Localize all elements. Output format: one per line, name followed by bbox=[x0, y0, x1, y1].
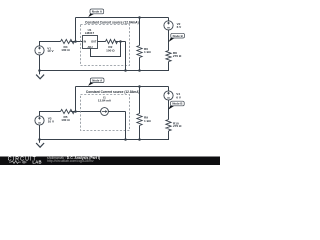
svg-text:1 kΩ: 1 kΩ bbox=[144, 119, 151, 123]
node dot R9 on rail bbox=[138, 138, 141, 141]
wire R6 to rail bbox=[139, 58, 141, 71]
voltage source V4 bbox=[164, 91, 173, 100]
constant current source dashed box (top) bbox=[81, 25, 130, 66]
svg-text:270 Ω: 270 Ω bbox=[173, 124, 182, 128]
wire node A corner to V2 bbox=[168, 18, 170, 21]
ground symbol (bottom circuit) bbox=[36, 143, 44, 147]
wire output drop to rail (bottom) bbox=[125, 112, 127, 140]
node dot R9 branch bbox=[138, 85, 141, 88]
wire node A top horizontal bbox=[76, 17, 169, 19]
wire node A riser (bottom) bbox=[75, 87, 77, 112]
op-amp U1 LM317 body bbox=[83, 36, 98, 49]
label I1 12.84 mA bbox=[98, 96, 112, 103]
label R2 100 ohm bbox=[106, 45, 115, 52]
resistor R6 bbox=[137, 46, 142, 58]
svg-text:OUT: OUT bbox=[91, 39, 97, 43]
wire R8 to rail bbox=[40, 62, 169, 71]
svg-text:LM317: LM317 bbox=[85, 31, 95, 35]
resistor R5 bbox=[61, 109, 75, 113]
node dot output on rail (bottom) bbox=[124, 138, 127, 141]
voltage source V3 bbox=[35, 116, 44, 125]
resistor R9 bbox=[137, 114, 142, 126]
wire R10 to rail bbox=[40, 131, 169, 140]
wire R6 branch vertical bbox=[139, 18, 141, 46]
wire V1 bottom to ground bbox=[39, 55, 41, 74]
svg-text:10 V: 10 V bbox=[48, 119, 55, 123]
label R8 270 ohm bbox=[173, 51, 182, 58]
node A callout (bottom) bbox=[88, 78, 104, 86]
node B callout (top) bbox=[169, 33, 185, 42]
svg-text:100 Ω: 100 Ω bbox=[61, 48, 70, 52]
node dot output on rail bbox=[124, 69, 127, 72]
wire V3 top to row bbox=[40, 112, 61, 116]
voltage source V2 bbox=[164, 21, 173, 30]
node dot ADJ feedback junction bbox=[119, 40, 122, 43]
node B callout (bottom) bbox=[168, 101, 184, 109]
wire R5 to I1 bbox=[71, 111, 101, 113]
svg-text:Constant Current source (12.84: Constant Current source (12.84mA) bbox=[86, 90, 140, 94]
label R5 100 ohm bbox=[61, 115, 70, 122]
node dot ground junction (bottom) bbox=[38, 138, 41, 141]
svg-text:270 Ω: 270 Ω bbox=[173, 54, 182, 58]
node A callout (top) bbox=[88, 9, 103, 17]
label R4 100 ohm bbox=[61, 45, 70, 52]
svg-text:ADJ: ADJ bbox=[87, 45, 93, 49]
wire output drop to rail bbox=[125, 42, 127, 71]
svg-text:Node A: Node A bbox=[92, 10, 103, 14]
label U1 LM317 bbox=[85, 28, 95, 35]
label V1 10 V bbox=[47, 46, 54, 53]
wire node A vertical riser bbox=[75, 18, 77, 42]
label R6 1 kohm bbox=[144, 47, 151, 54]
svg-text:LAB: LAB bbox=[32, 160, 41, 165]
node dot ground junction bbox=[38, 69, 41, 72]
svg-text:100 Ω: 100 Ω bbox=[106, 48, 115, 52]
label R9 1 kohm bbox=[144, 116, 151, 123]
wire R4 to LM317 IN bbox=[71, 41, 83, 43]
resistor R2 bbox=[106, 39, 118, 43]
ground symbol (top circuit) bbox=[36, 75, 44, 79]
node dot R6 branch on node A wire bbox=[138, 16, 141, 19]
wire I1 to output corner bbox=[108, 111, 125, 113]
wire R2 to output corner bbox=[116, 41, 126, 43]
svg-text:Constant Current source (12.84: Constant Current source (12.84mA) bbox=[85, 20, 139, 24]
label V3 10 V bbox=[48, 117, 55, 124]
svg-text:6 V: 6 V bbox=[176, 96, 182, 100]
resistor R4 bbox=[61, 39, 75, 43]
wire R9 to rail bbox=[139, 126, 141, 140]
logo resistor zigzag bbox=[9, 161, 27, 164]
wire node A top horizontal (bottom circuit) bbox=[76, 86, 169, 88]
wire OUT pin to R2 bbox=[98, 41, 106, 43]
wire V1 top to row bbox=[40, 42, 61, 46]
svg-text:1 kΩ: 1 kΩ bbox=[144, 50, 151, 54]
wire ADJ feedback loop bbox=[91, 42, 121, 57]
svg-text:http://circuitlab.com/cqp428lm: http://circuitlab.com/cqp428lmv bbox=[47, 159, 94, 163]
node junction dot at R4/NodeA branch bbox=[74, 40, 77, 43]
voltage source V1 bbox=[35, 46, 44, 55]
svg-text:Node B: Node B bbox=[173, 34, 183, 38]
wire V4 to R10 bbox=[168, 100, 170, 119]
node junction dot bottom nodeA branch bbox=[74, 110, 77, 113]
current source I1 bbox=[101, 108, 109, 116]
wire V2 to R8 bbox=[168, 30, 170, 51]
pin labels IN OUT ADJ bbox=[84, 39, 97, 49]
wire R9 branch vertical bbox=[139, 87, 141, 114]
constant current source dashed box (bottom) bbox=[81, 95, 130, 131]
svg-text:100 Ω: 100 Ω bbox=[61, 118, 70, 122]
svg-text:6 V: 6 V bbox=[177, 25, 183, 29]
svg-text:Node B: Node B bbox=[172, 102, 182, 106]
resistor R8 bbox=[166, 51, 171, 62]
wire node A corner to V4 bbox=[168, 87, 170, 91]
svg-text:IN: IN bbox=[84, 39, 87, 43]
label V2 6 V bbox=[177, 22, 183, 29]
resistor R10 bbox=[166, 120, 171, 131]
svg-text:12.84 mA: 12.84 mA bbox=[98, 99, 112, 103]
node dot R6 on rail bbox=[138, 69, 141, 72]
label R10 270 ohm bbox=[173, 121, 182, 128]
wire V3 bottom to ground bbox=[39, 125, 41, 143]
svg-text:Node A: Node A bbox=[92, 79, 103, 83]
label V4 6 V bbox=[176, 92, 182, 99]
footer bar bbox=[0, 157, 220, 166]
svg-text:10 V: 10 V bbox=[47, 49, 54, 53]
